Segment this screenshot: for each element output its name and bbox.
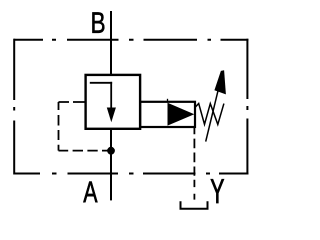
port B label	[92, 12, 104, 32]
wire: B port line from top to valve square	[110, 11, 112, 75]
port A label	[83, 182, 97, 203]
pilot actuator box	[140, 102, 195, 127]
valve square body	[86, 75, 141, 129]
pilot dashed line: left vertical segment	[58, 102, 60, 151]
internal flow path with down arrow	[90, 82, 112, 109]
drain Y dashed line	[193, 127, 195, 199]
spring (zigzag)	[195, 104, 224, 125]
enclosure dash-dot border, right edge	[246, 39, 248, 175]
adjustment arrow head (filled)	[214, 70, 226, 94]
drain port bracket	[181, 201, 208, 209]
wire: A port line from valve square bottom to bottom	[110, 128, 112, 200]
junction node on A line	[107, 147, 115, 155]
enclosure dash-dot border, bottom edge	[14, 173, 249, 175]
internal flow path arrowhead	[107, 108, 116, 123]
adjustment arrow shaft	[206, 80, 221, 142]
enclosure dash-dot border, top edge	[14, 39, 249, 41]
pilot dashed line: top horizontal segment to square left edge	[59, 101, 86, 103]
enclosure dash-dot border, left edge	[13, 39, 15, 175]
port Y label	[211, 179, 224, 203]
hydraulic pilot triangle (filled)	[168, 103, 195, 126]
pilot triangle base tick over box top edge	[167, 99, 169, 103]
pilot dashed line: bottom horizontal segment to junction	[59, 150, 112, 152]
